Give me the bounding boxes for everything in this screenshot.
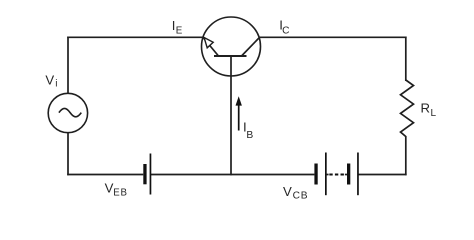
cell2 thick plate [347, 164, 350, 185]
wire left vertical upper [67, 37, 69, 94]
negative thick plate [143, 164, 146, 184]
svg-text:i: i [55, 78, 57, 89]
collector line [242, 38, 260, 56]
wire base vertical [230, 76, 232, 175]
base lead inside circle [230, 56, 232, 76]
svg-text:CB: CB [293, 191, 309, 202]
cell2 thin plate [357, 153, 359, 196]
base bar [214, 55, 247, 57]
svg-text:R: R [421, 101, 431, 116]
resistor RL [401, 80, 414, 137]
wire left vertical lower [67, 133, 69, 176]
battery VCB [314, 153, 358, 196]
cell1 thick plate [314, 164, 317, 185]
svg-text:V: V [283, 184, 292, 199]
svg-text:EB: EB [113, 187, 128, 198]
wire bottom segment 1 [67, 174, 143, 176]
stub before cell2 [345, 174, 347, 176]
battery VEB [143, 154, 151, 195]
svg-text:L: L [431, 108, 437, 119]
dashed link [329, 174, 332, 176]
current arrow IB [236, 96, 242, 130]
wire right vertical upper [405, 37, 407, 82]
svg-text:C: C [282, 26, 289, 37]
wire top-right horizontal [259, 36, 407, 38]
wire bottom segment 3 [358, 174, 407, 176]
wire right vertical lower [405, 136, 407, 175]
wire top-left horizontal [67, 36, 203, 38]
cell1 thin plate [325, 153, 327, 196]
svg-text:V: V [45, 73, 54, 88]
transistor Q1 [202, 17, 261, 76]
stub after thin plate [326, 174, 328, 176]
positive thin plate [150, 154, 152, 195]
emitter line [204, 38, 219, 56]
emitter open arrowhead [204, 38, 213, 48]
svg-text:B: B [246, 130, 253, 141]
ac source Vi [48, 93, 87, 132]
wire bottom segment 2 [150, 174, 314, 176]
svg-text:E: E [176, 26, 183, 37]
